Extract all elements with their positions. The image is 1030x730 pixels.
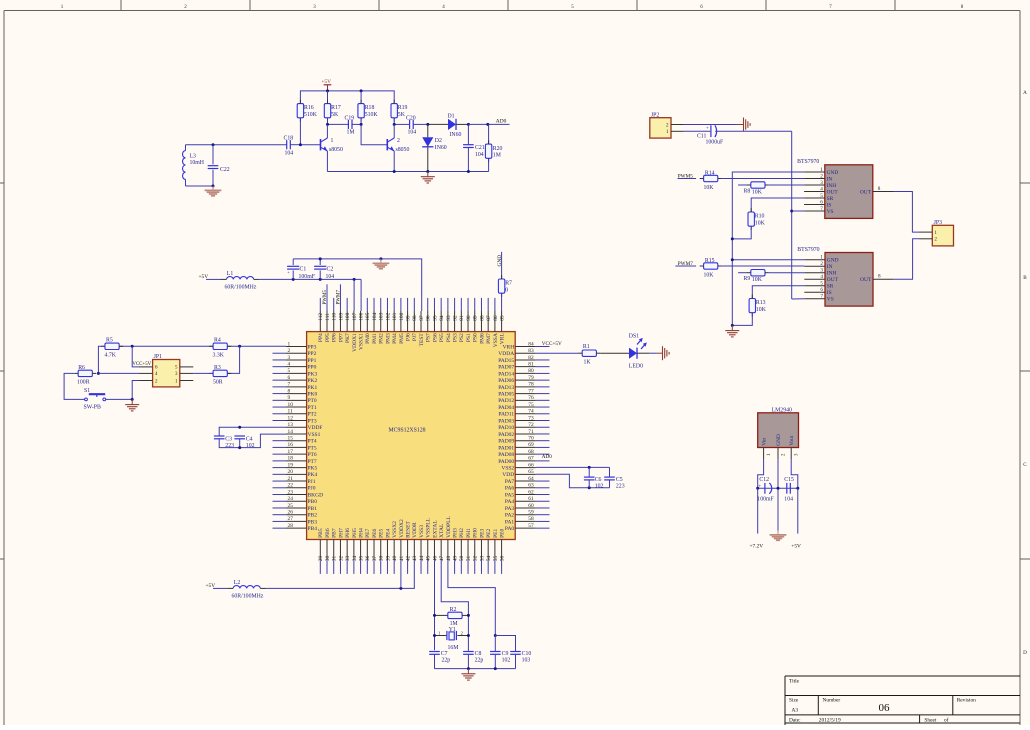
wire GND pin1 net (upper)	[732, 172, 804, 325]
svg-text:PB4: PB4	[308, 526, 318, 532]
svg-text:23: 23	[288, 489, 294, 495]
junction ground GND rail	[379, 257, 382, 260]
crystal Y1 16M	[435, 627, 469, 651]
svg-text:PM2: PM2	[379, 333, 385, 344]
junction C4 bottom	[238, 446, 241, 449]
svg-text:104: 104	[285, 151, 294, 157]
svg-text:PH0: PH0	[473, 528, 479, 538]
svg-text:43: 43	[412, 555, 418, 561]
svg-text:PP0: PP0	[308, 365, 317, 371]
svg-text:Size: Size	[789, 698, 799, 704]
svg-text:R1: R1	[583, 344, 590, 350]
svg-text:IN: IN	[827, 176, 833, 182]
svg-text:PS4: PS4	[446, 333, 452, 342]
diode D1 IN60	[428, 113, 469, 138]
junction C9 bottom	[494, 667, 497, 670]
svg-text:PS7: PS7	[426, 333, 432, 342]
junction LM GND rail	[777, 487, 780, 490]
svg-text:PM3: PM3	[385, 333, 391, 344]
wire LM2940 cap rail	[758, 487, 798, 489]
svg-text:SR: SR	[827, 196, 834, 202]
junction C19 right	[360, 123, 363, 126]
svg-text:52: 52	[473, 555, 479, 561]
svg-text:VDDX1: VDDX1	[352, 333, 358, 352]
svg-text:JP2: JP2	[651, 112, 659, 118]
svg-text:PA6: PA6	[505, 486, 515, 492]
svg-text:PS6: PS6	[432, 333, 438, 342]
svg-text:PWM5: PWM5	[323, 290, 328, 305]
junction Q2 emitter rail	[393, 170, 396, 173]
svg-text:22p: 22p	[442, 657, 451, 663]
svg-text:25: 25	[288, 503, 294, 509]
U2 top pin numbers	[318, 312, 505, 320]
svg-text:70: 70	[528, 435, 534, 441]
wire Q1 emitter to rail	[326, 151, 328, 172]
svg-text:29: 29	[318, 555, 324, 561]
net label PWM7 (chip)	[336, 290, 341, 305]
svg-text:60R/100MHz: 60R/100MHz	[232, 594, 264, 600]
resistor R4 3.3K	[209, 338, 231, 359]
svg-text:OUT: OUT	[860, 189, 872, 195]
switch S1 SW-PB	[84, 388, 106, 411]
svg-text:99: 99	[405, 315, 411, 321]
svg-text:Revision: Revision	[957, 698, 976, 704]
U2 left pin stubs	[286, 347, 307, 529]
svg-text:C22: C22	[220, 167, 230, 173]
svg-text:PH4: PH4	[358, 528, 364, 538]
svg-text:+: +	[706, 126, 709, 132]
ground below JP1	[125, 399, 139, 411]
svg-text:2: 2	[288, 348, 291, 354]
junction R19 bottom	[393, 123, 396, 126]
wire L3 bottom to C22 bottom	[186, 185, 214, 187]
ground crystal rail	[461, 669, 475, 681]
wire VDDF rail	[219, 427, 286, 436]
capacitor C7 22p	[429, 651, 450, 669]
svg-text:PB3: PB3	[308, 519, 318, 525]
svg-text:C21: C21	[475, 145, 485, 151]
capacitor C8 22p	[463, 650, 483, 668]
junction VDDX2 column	[399, 587, 402, 590]
svg-text:C: C	[1023, 462, 1027, 468]
svg-text:A3: A3	[792, 708, 799, 714]
junction top rail R17	[326, 89, 329, 92]
svg-text:VDDX2: VDDX2	[399, 519, 405, 538]
svg-text:PE4: PE4	[385, 528, 391, 537]
junction R4 right node	[238, 345, 241, 348]
wire +5V rail to chip	[260, 278, 361, 280]
net label GND (R7)	[497, 255, 503, 267]
svg-text:50R: 50R	[213, 380, 223, 386]
svg-text:81: 81	[528, 361, 534, 367]
svg-text:s8050: s8050	[396, 147, 410, 153]
svg-text:10K: 10K	[756, 307, 767, 313]
net label +5V (L1)	[199, 274, 209, 280]
svg-text:PT7: PT7	[308, 459, 317, 465]
junction R10 GND net	[731, 237, 734, 240]
svg-text:35: 35	[358, 555, 364, 561]
wire Q2 emitter to rail	[393, 151, 395, 172]
svg-text:1M: 1M	[347, 130, 355, 136]
svg-text:PM7: PM7	[486, 333, 492, 344]
junction L3-C22 top	[212, 143, 215, 146]
svg-text:60R/100MHz: 60R/100MHz	[225, 285, 257, 291]
U2 right pin names	[498, 344, 514, 532]
junction C21 top	[467, 123, 470, 126]
svg-text:24: 24	[288, 496, 294, 502]
junction R20 top	[486, 123, 489, 126]
svg-text:3: 3	[820, 268, 823, 274]
svg-text:Number: Number	[823, 698, 841, 704]
transistor Q2 s8050	[387, 138, 409, 153]
U2 left pin numbers	[288, 341, 294, 529]
svg-text:S1: S1	[84, 388, 90, 394]
svg-text:VDDR: VDDR	[412, 522, 418, 538]
U2 top pin wire tails	[320, 284, 501, 311]
svg-text:102: 102	[595, 483, 604, 489]
svg-text:90: 90	[466, 315, 472, 321]
U2 left pin wire tails	[273, 353, 287, 528]
svg-text:10mH: 10mH	[190, 160, 205, 166]
svg-text:6: 6	[820, 199, 823, 205]
driver U4 BTS7970 (lower)	[797, 247, 893, 306]
svg-text:R17: R17	[331, 105, 341, 111]
svg-text:of: of	[944, 717, 949, 724]
svg-text:11: 11	[288, 409, 293, 415]
svg-text:PB7: PB7	[332, 528, 338, 538]
ground below C22	[205, 186, 222, 196]
wire Q2 collector	[393, 124, 395, 138]
power +5V symbol (oscillator)	[321, 79, 331, 91]
resistor R3 50R	[209, 365, 231, 386]
svg-text:34: 34	[352, 555, 358, 561]
wire OUT lower to JP3 pin2	[894, 239, 920, 279]
capacitor C22	[208, 145, 230, 186]
svg-text:31: 31	[332, 555, 338, 561]
svg-text:32: 32	[338, 555, 344, 561]
svg-text:C20: C20	[406, 116, 416, 122]
svg-text:110: 110	[332, 313, 338, 321]
capacitor C15 104	[784, 477, 794, 502]
svg-text:PAD13: PAD13	[498, 385, 514, 391]
title block text	[789, 679, 976, 724]
net label PWM7 (R15)	[678, 261, 693, 267]
wire R5 left down	[98, 346, 105, 373]
svg-text:VSSPLL: VSSPLL	[426, 517, 432, 538]
junction VDDX1 column	[353, 278, 356, 281]
svg-text:PAD10: PAD10	[498, 425, 514, 431]
svg-text:51: 51	[466, 555, 472, 561]
wire +5V top rail	[300, 91, 394, 103]
junction S1 ground node	[131, 398, 134, 401]
wire C9 column	[494, 636, 496, 652]
svg-text:84: 84	[528, 341, 534, 347]
svg-text:PE1: PE1	[493, 528, 499, 537]
svg-text:L1: L1	[227, 271, 234, 277]
svg-text:55: 55	[493, 555, 499, 561]
svg-text:1: 1	[288, 341, 291, 347]
svg-text:LM2940: LM2940	[772, 407, 792, 413]
wire R15 to IN	[722, 265, 805, 267]
U2 top pin stubs	[320, 311, 501, 332]
junction D2 bottom rail	[426, 170, 429, 173]
U2 right pin wire tails	[536, 347, 550, 529]
svg-text:IN60: IN60	[435, 145, 447, 151]
svg-text:PAD02: PAD02	[498, 432, 514, 438]
wire R1 to LED	[600, 352, 629, 354]
wire VSSX1 drop	[360, 279, 362, 298]
svg-text:71: 71	[528, 429, 534, 435]
junction D2 top	[426, 123, 429, 126]
svg-text:106: 106	[358, 312, 364, 320]
svg-text:PE2: PE2	[486, 528, 492, 537]
svg-text:26: 26	[288, 510, 294, 516]
wire R16 bottom to base node	[299, 118, 301, 144]
svg-text:102: 102	[385, 312, 391, 320]
wire JP2 pin2 to ground	[684, 124, 738, 126]
svg-text:Sheet: Sheet	[924, 718, 936, 724]
svg-text:C6: C6	[595, 477, 602, 483]
svg-text:Date:: Date:	[789, 718, 801, 724]
svg-text:100mF: 100mF	[299, 274, 316, 280]
svg-text:PM1: PM1	[372, 333, 378, 344]
svg-text:PAD05: PAD05	[498, 391, 514, 397]
svg-text:PA0: PA0	[505, 526, 515, 532]
wire GND rail top	[293, 259, 422, 298]
svg-text:54: 54	[486, 555, 492, 561]
svg-text:PE6: PE6	[372, 528, 378, 537]
wire PWM7 to R15	[675, 265, 696, 267]
svg-text:88: 88	[479, 315, 485, 321]
junction C1 bottom	[292, 278, 295, 281]
wire VSS1 rail	[219, 434, 286, 448]
svg-text:36: 36	[365, 555, 371, 561]
svg-text:PS1: PS1	[466, 333, 472, 342]
svg-text:100mF: 100mF	[757, 496, 774, 502]
resistor R2 1M	[435, 607, 469, 627]
net label +5V (L2)	[206, 583, 216, 589]
svg-text:PJ0: PJ0	[308, 486, 316, 492]
wire pin83 to R1	[536, 352, 579, 354]
junction C9 top	[494, 634, 497, 637]
svg-text:C19: C19	[345, 116, 355, 122]
svg-text:AD0: AD0	[542, 454, 552, 460]
svg-text:Vout: Vout	[789, 435, 795, 446]
svg-text:R6: R6	[78, 365, 85, 371]
wire EXTAL column	[434, 560, 436, 650]
wire +5V bottom rail	[266, 560, 414, 588]
svg-text:61: 61	[528, 496, 534, 502]
wire C10 route	[495, 636, 515, 652]
svg-text:PAD07: PAD07	[498, 365, 514, 371]
svg-text:38: 38	[379, 555, 385, 561]
junction VS upper	[790, 210, 793, 213]
resistor R6 100R	[74, 365, 96, 386]
svg-text:INH: INH	[827, 183, 837, 189]
svg-text:PH2: PH2	[459, 528, 465, 538]
svg-text:PP1: PP1	[308, 358, 317, 364]
svg-text:PS5: PS5	[439, 333, 445, 342]
transistor Q1 s8050	[321, 138, 343, 153]
svg-text:65: 65	[528, 469, 534, 475]
svg-text:DS1: DS1	[629, 334, 639, 340]
svg-text:510K: 510K	[304, 112, 318, 118]
svg-text:17: 17	[288, 449, 294, 455]
capacitor C20 104	[394, 116, 428, 136]
junction R13 GND net	[731, 324, 734, 327]
ground BTS block	[725, 325, 739, 337]
junction C4 top	[238, 426, 241, 429]
svg-text:IS: IS	[827, 202, 832, 208]
wire OUT upper to JP3 pin1	[894, 192, 920, 233]
svg-text:R20: R20	[493, 146, 503, 152]
svg-text:12: 12	[288, 415, 294, 421]
svg-text:C15: C15	[784, 477, 794, 483]
wire +5V column	[797, 488, 799, 533]
svg-text:80: 80	[528, 368, 534, 374]
svg-text:7: 7	[820, 206, 823, 212]
svg-text:10K: 10K	[752, 277, 763, 283]
svg-text:0: 0	[505, 288, 508, 294]
capacitor C5 223	[604, 467, 624, 489]
svg-text:VDDF: VDDF	[308, 425, 323, 431]
svg-text:100: 100	[399, 312, 405, 320]
svg-text:PA2: PA2	[505, 513, 515, 519]
svg-text:PA3: PA3	[505, 506, 515, 512]
wire R18 top stub	[360, 91, 362, 103]
wire R17 top stub	[327, 91, 329, 103]
svg-text:PS3: PS3	[453, 333, 459, 342]
svg-text:C1: C1	[300, 267, 307, 273]
svg-text:C5: C5	[616, 477, 623, 483]
wire crystal ground rail	[435, 668, 516, 670]
svg-text:107: 107	[352, 312, 358, 320]
svg-text:8: 8	[878, 186, 881, 192]
svg-text:R15: R15	[705, 258, 715, 264]
capacitor C18 104	[213, 136, 321, 157]
svg-text:Y1: Y1	[449, 627, 456, 633]
svg-text:50: 50	[459, 555, 465, 561]
svg-text:5K: 5K	[331, 112, 339, 118]
svg-text:+7.2V: +7.2V	[750, 543, 764, 549]
svg-text:PE0: PE0	[500, 528, 506, 537]
svg-text:58: 58	[528, 516, 534, 522]
resistor R9 10K	[738, 270, 804, 284]
U2 bottom pin numbers	[318, 555, 505, 561]
wire pin1 net	[119, 345, 286, 347]
net label VCC+5V (JP1)	[132, 362, 151, 367]
svg-text:+5V: +5V	[791, 543, 801, 549]
svg-text:4: 4	[820, 274, 823, 280]
svg-text:1: 1	[820, 255, 823, 261]
svg-text:53: 53	[479, 555, 485, 561]
svg-text:PA5: PA5	[505, 492, 515, 498]
junction top rail R18	[360, 89, 363, 92]
ground right of LED	[657, 346, 669, 360]
svg-text:OUT: OUT	[827, 189, 839, 195]
svg-text:98: 98	[412, 315, 418, 321]
wire GND to R7	[501, 252, 503, 280]
svg-text:5: 5	[820, 193, 823, 199]
capacitor C6 102	[584, 467, 604, 489]
svg-text:4: 4	[820, 186, 823, 192]
svg-text:PM5: PM5	[399, 333, 405, 344]
wire VCC down to JP1 pin6	[132, 346, 138, 367]
svg-text:R3: R3	[214, 365, 221, 371]
svg-text:48: 48	[446, 555, 452, 561]
svg-text:06: 06	[879, 702, 891, 714]
svg-text:92: 92	[453, 315, 459, 321]
svg-text:JP1: JP1	[154, 354, 162, 360]
svg-text:Vin: Vin	[762, 438, 768, 446]
wire R19 bottom node	[393, 118, 395, 124]
svg-text:PP5: PP5	[325, 333, 331, 342]
wire VDDX2 drop	[400, 560, 402, 588]
junction C2 bottom	[319, 278, 322, 281]
junction C2 top GND rail	[319, 257, 322, 260]
junction C19 left	[326, 123, 329, 126]
svg-text:Title: Title	[789, 679, 800, 685]
svg-text:21: 21	[288, 476, 294, 482]
title block	[785, 676, 1020, 725]
svg-text:1000uF: 1000uF	[706, 139, 724, 145]
svg-text:VS: VS	[827, 209, 834, 215]
svg-text:OUT: OUT	[860, 277, 872, 283]
svg-text:1: 1	[331, 138, 334, 144]
svg-text:AD0: AD0	[496, 118, 507, 124]
svg-text:46: 46	[432, 555, 438, 561]
svg-text:86: 86	[493, 315, 499, 321]
capacitor C12 100mF polarized	[757, 477, 774, 502]
svg-text:B: B	[1023, 275, 1027, 281]
svg-text:R13: R13	[756, 300, 766, 306]
svg-text:PP6: PP6	[332, 333, 338, 342]
svg-text:73: 73	[528, 415, 534, 421]
svg-text:104: 104	[372, 312, 378, 320]
resistor R5 4.7K	[101, 338, 123, 359]
svg-text:4: 4	[288, 361, 291, 367]
capacitor C2 104	[314, 259, 334, 280]
svg-text:83: 83	[528, 348, 534, 354]
svg-text:104: 104	[784, 496, 793, 502]
zone letters A-D	[1023, 90, 1027, 656]
svg-text:+: +	[758, 483, 761, 489]
svg-text:93: 93	[446, 315, 452, 321]
svg-text:TEST: TEST	[419, 333, 425, 347]
svg-text:PT6: PT6	[308, 452, 317, 458]
wire R6 left to S1	[64, 373, 84, 399]
led DS1 LED0	[629, 334, 647, 370]
svg-text:59: 59	[528, 510, 534, 516]
svg-text:39: 39	[385, 555, 391, 561]
junction Y1 right	[467, 634, 470, 637]
svg-text:PAD00: PAD00	[498, 459, 514, 465]
svg-text:RESET: RESET	[405, 520, 411, 537]
svg-text:PB1: PB1	[308, 506, 318, 512]
svg-text:PJ6: PJ6	[405, 333, 411, 341]
svg-text:PM6: PM6	[479, 333, 485, 344]
wire S1 to ground node	[106, 398, 132, 400]
zone numbers 1-8	[61, 5, 964, 10]
svg-text:101: 101	[392, 312, 398, 320]
connector JP2	[650, 112, 684, 138]
ground below LM2940	[770, 531, 787, 541]
inductor L1 60R/100MHz	[206, 271, 260, 291]
svg-text:78: 78	[528, 382, 534, 388]
svg-text:VSS1: VSS1	[308, 432, 321, 438]
wire +7.2V column	[757, 488, 759, 533]
svg-text:6: 6	[820, 287, 823, 293]
